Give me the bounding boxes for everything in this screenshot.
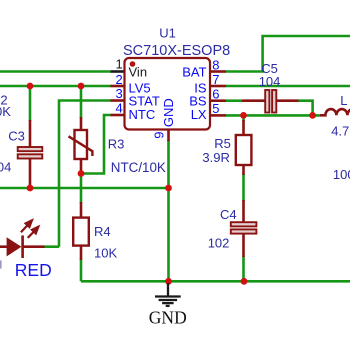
svg-text:C4: C4 [220, 207, 237, 222]
svg-text:7: 7 [212, 72, 219, 87]
svg-text:R5: R5 [214, 136, 231, 151]
svg-text:4.7uH: 4.7uH [331, 123, 350, 138]
svg-text:LX: LX [191, 107, 207, 122]
svg-text:5: 5 [212, 101, 219, 116]
svg-text:SC710X-ESOP8: SC710X-ESOP8 [123, 43, 230, 59]
svg-text:R4: R4 [94, 224, 111, 239]
svg-text:3: 3 [116, 86, 123, 101]
svg-text:RED: RED [15, 260, 52, 280]
svg-text:Vin: Vin [129, 64, 148, 79]
svg-text:100: 100 [333, 167, 350, 182]
svg-text:9: 9 [152, 132, 167, 139]
svg-text:104: 104 [0, 159, 11, 174]
svg-text:4: 4 [116, 101, 123, 116]
svg-text:3.9R: 3.9R [202, 150, 229, 165]
svg-text:6: 6 [212, 86, 219, 101]
svg-text:GND: GND [161, 98, 176, 127]
svg-text:R3: R3 [108, 136, 125, 151]
svg-text:10K: 10K [0, 104, 11, 119]
svg-text:U1: U1 [159, 25, 176, 40]
svg-text:104: 104 [259, 74, 281, 89]
svg-text:NTC/10K: NTC/10K [111, 160, 166, 175]
svg-text:BAT: BAT [182, 64, 206, 79]
svg-text:NTC: NTC [129, 107, 156, 122]
svg-text:10K: 10K [94, 246, 117, 261]
svg-text:L: L [340, 93, 347, 108]
svg-text:8: 8 [212, 58, 219, 73]
svg-text:GND: GND [149, 308, 187, 328]
svg-text:2: 2 [116, 72, 123, 87]
svg-text:1: 1 [116, 57, 123, 72]
svg-text:C3: C3 [8, 128, 25, 143]
svg-text:102: 102 [208, 235, 230, 250]
